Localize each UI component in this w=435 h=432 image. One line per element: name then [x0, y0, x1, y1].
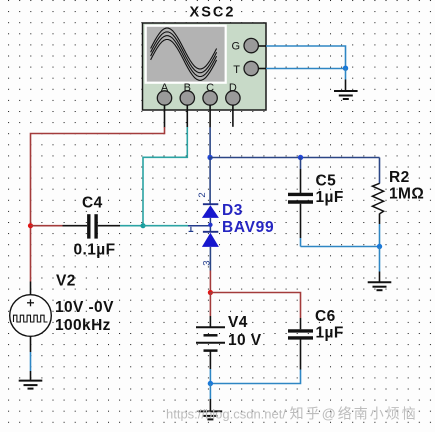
capacitor C4 — [63, 214, 121, 238]
svg-text:10V -0V: 10V -0V — [55, 299, 114, 316]
svg-text:T: T — [233, 64, 240, 76]
svg-text:C4: C4 — [82, 195, 103, 212]
oscilloscope XSC2 body — [143, 23, 267, 110]
capacitor C5 — [288, 158, 313, 247]
svg-text:1µF: 1µF — [316, 325, 344, 342]
pin stub A — [164, 105, 166, 127]
wire C5 bottom to R2 bottom (blue) — [301, 246, 380, 248]
wire V4 bottom to junction (blue) — [209, 369, 211, 384]
wire C4 right to node (teal) — [120, 225, 143, 227]
diode D3 (BAV99 dual) — [202, 204, 219, 270]
terminal G label — [231, 41, 240, 53]
wire junction to C6 (red) — [210, 293, 300, 319]
wire junction to C4 (red) — [31, 225, 63, 227]
ground 4 (bottom middle) — [199, 411, 223, 419]
svg-text:V2: V2 — [56, 273, 76, 290]
ground 1 (top right) — [334, 91, 358, 99]
wire node down to D3 pin2 (navy) — [209, 158, 211, 205]
svg-text:V4: V4 — [228, 314, 248, 331]
terminal D label — [229, 82, 237, 94]
terminal A circle — [157, 91, 171, 105]
wire junction to V4 (red) — [209, 293, 211, 328]
wire D3 pin3 to V4/C6 (red) — [209, 271, 211, 293]
label R2 — [389, 169, 410, 186]
wire V2 top lead — [30, 282, 32, 296]
node junction G/T — [343, 66, 348, 71]
oscilloscope screen waveform traces — [151, 28, 217, 80]
label D3 — [222, 202, 243, 219]
resistor R2 — [372, 158, 383, 247]
wire V2 bottom to ground 3 (blue) — [30, 336, 32, 380]
ground 2 (right) — [368, 282, 392, 290]
svg-text:10 V: 10 V — [228, 332, 262, 349]
label V2 — [56, 273, 76, 290]
label C4 — [82, 195, 103, 212]
wire G to ground (blue) — [266, 46, 346, 68]
ground 3 (bottom left) — [19, 381, 43, 389]
value 1MΩ — [389, 186, 424, 203]
svg-text:3: 3 — [202, 261, 213, 266]
wire junction to ground 4 — [209, 384, 211, 412]
svg-text:BAV99: BAV99 — [222, 219, 274, 236]
node junction red left — [28, 223, 33, 228]
pin number 3 — [202, 261, 213, 266]
battery V4 — [196, 327, 225, 369]
terminal B label — [184, 82, 191, 94]
pin stub C — [209, 105, 211, 127]
wire junction to ground 2 — [379, 247, 381, 283]
pin stub G — [258, 45, 266, 47]
value 10 V — [228, 332, 262, 349]
node junction navy top — [207, 155, 212, 160]
pin stub D (unconnected) — [232, 105, 234, 127]
svg-text:C5: C5 — [316, 173, 337, 190]
value 10V -0V — [55, 299, 114, 316]
terminal A label — [161, 82, 169, 94]
svg-text:100kHz: 100kHz — [55, 317, 111, 334]
terminal T label — [233, 64, 240, 76]
svg-text:D3: D3 — [222, 202, 243, 219]
terminal C circle — [203, 91, 217, 105]
watermark — [166, 406, 418, 422]
terminal C label — [206, 82, 214, 94]
svg-text:1MΩ: 1MΩ — [389, 186, 424, 203]
wire C to node (navy) — [209, 127, 211, 157]
pin stub B — [186, 105, 188, 127]
wire A to C4/V2 (red) — [31, 127, 165, 282]
value C6 1µF — [316, 325, 344, 342]
wire node to D3 pin1 (teal) — [143, 225, 188, 227]
svg-text:R2: R2 — [389, 169, 410, 186]
value C5 1µF — [316, 189, 344, 206]
value BAV99 — [222, 219, 274, 236]
terminal G circle — [244, 38, 258, 52]
value 100kHz — [55, 317, 111, 334]
svg-text:G: G — [231, 41, 240, 53]
terminal T circle — [244, 61, 258, 75]
oscilloscope XSC2 title label — [190, 5, 236, 21]
label C6 — [315, 308, 336, 325]
pin stub T — [258, 68, 266, 70]
node junction teal — [140, 223, 145, 228]
wire C6 bottom to V4 bottom (blue) — [210, 370, 300, 384]
node junction navy at C5 — [298, 155, 303, 160]
wire junction to ground 1 — [345, 68, 347, 91]
terminal D circle — [226, 91, 240, 105]
svg-text:https://blog.csdn.net/ 知乎@络南小烦: https://blog.csdn.net/ 知乎@络南小烦恼 — [166, 406, 418, 422]
wire T to ground (blue) — [266, 68, 346, 70]
capacitor C6 — [288, 318, 313, 370]
value 0.1µF — [74, 242, 116, 259]
terminal B circle — [180, 91, 194, 105]
svg-text:1µF: 1µF — [316, 189, 344, 206]
label V4 — [228, 314, 248, 331]
wire B to C4 right / D3 pin1 (teal) — [143, 127, 187, 226]
source V2 — [10, 295, 52, 337]
label C5 — [316, 173, 337, 190]
pin number 2 — [197, 192, 208, 197]
svg-text:0.1µF: 0.1µF — [74, 242, 116, 259]
svg-text:XSC2: XSC2 — [190, 5, 236, 21]
node junction blue bottom — [208, 381, 213, 386]
D3 pin 1 lead — [188, 225, 210, 227]
node junction blue right — [377, 244, 382, 249]
svg-text:C6: C6 — [315, 308, 336, 325]
node junction red bottom — [208, 290, 213, 295]
wire node to C5/R2 top (navy) — [210, 157, 379, 159]
svg-text:2: 2 — [197, 192, 208, 197]
pin number 1 — [189, 227, 194, 232]
